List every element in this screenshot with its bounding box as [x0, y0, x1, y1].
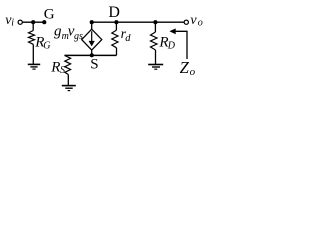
- svg-text:o: o: [190, 66, 196, 78]
- svg-text:R: R: [50, 60, 60, 76]
- node D dot (rd junction): [114, 20, 118, 24]
- current source arrow: [89, 31, 95, 46]
- svg-text:G: G: [43, 41, 50, 52]
- resistor RG: [29, 31, 35, 45]
- wire RD top: [154, 22, 156, 32]
- wire diamond bottom stub: [91, 50, 93, 56]
- input terminal circle: [18, 20, 22, 24]
- svg-text:D: D: [108, 4, 120, 21]
- node S dot: [90, 53, 94, 57]
- resistor rd: [112, 30, 118, 48]
- node G dot: [42, 20, 46, 24]
- svg-text:i: i: [11, 17, 14, 28]
- wire diamond top stub: [91, 22, 93, 29]
- node RD junction dot: [153, 20, 157, 24]
- ground under RD: [148, 65, 163, 70]
- svg-text:Z: Z: [180, 58, 190, 77]
- node junction RG: [31, 20, 35, 24]
- svg-text:S: S: [60, 65, 65, 76]
- ground under RG: [28, 64, 40, 69]
- wire RG bottom: [32, 44, 34, 64]
- node diamond-top junction dot: [90, 20, 94, 24]
- svg-text:d: d: [125, 33, 131, 44]
- wire RD bottom: [155, 50, 157, 64]
- Zo arrow: [169, 28, 187, 59]
- wire top rail D to vo: [92, 21, 185, 23]
- wire rd top: [115, 22, 117, 30]
- svg-text:gs: gs: [74, 31, 83, 42]
- wire bottom rail S: [64, 54, 116, 56]
- resistor RS: [65, 56, 71, 75]
- wire RG top: [32, 22, 34, 30]
- resistor RD: [151, 32, 158, 50]
- svg-text:G: G: [44, 7, 55, 23]
- svg-text:S: S: [90, 57, 98, 73]
- svg-text:v: v: [190, 13, 197, 28]
- svg-text:D: D: [167, 41, 176, 52]
- wire rd bottom: [116, 48, 118, 56]
- wire input to G: [22, 21, 44, 23]
- ground under RS: [62, 86, 76, 91]
- svg-text:o: o: [198, 18, 203, 29]
- output terminal circle vo: [184, 20, 188, 24]
- wire RS bottom: [67, 75, 69, 86]
- current source diamond gmvgs: [82, 29, 102, 50]
